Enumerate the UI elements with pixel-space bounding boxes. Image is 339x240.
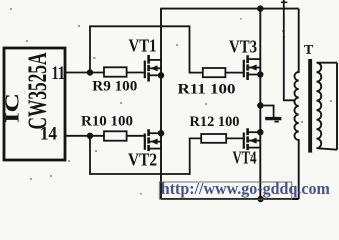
node VT3 bus to top rail (257, 5, 263, 11)
svg-text:CW3525A: CW3525A (23, 52, 52, 129)
wire R11 to VT3 gate (225, 72, 243, 74)
svg-text:R11 100: R11 100 (178, 82, 236, 98)
transformer secondary winding (317, 63, 338, 150)
svg-text:IC: IC (2, 93, 24, 123)
node ground branch junction (257, 102, 263, 108)
svg-text:R10 100: R10 100 (81, 114, 133, 130)
svg-text:T: T (304, 43, 314, 58)
node VT3 source junction (257, 71, 263, 77)
wire pin 14 to R12 bottom loop (90, 136, 201, 174)
resistor R10 (104, 131, 127, 140)
wire pin 11 to R11 top loop (90, 26, 203, 72)
wire R9 to VT1 gate (127, 72, 145, 74)
transistor VT4 (244, 128, 260, 150)
svg-text:R9 100: R9 100 (92, 78, 137, 94)
node VT2 drain junction (158, 130, 164, 136)
watermark box (159, 182, 291, 199)
resistor R9 (104, 67, 127, 76)
transformer center tap (281, 0, 295, 100)
svg-text:VT1: VT1 (129, 36, 157, 56)
wire R12 to VT4 gate (226, 137, 244, 139)
svg-text:11: 11 (52, 63, 66, 84)
svg-text:http://www.go-gddq.com: http://www.go-gddq.com (161, 179, 330, 198)
wire VT1 VT2 vertical bus (160, 9, 162, 199)
svg-text:VT4: VT4 (233, 148, 257, 168)
wire R10 to VT2 gate (127, 135, 145, 137)
svg-text:VT2: VT2 (128, 149, 157, 169)
IC CW3525A (2, 48, 66, 160)
node pin 14 junction (87, 133, 93, 139)
svg-text:R12 100: R12 100 (190, 114, 240, 130)
wire ground branch (260, 106, 273, 118)
wire pin 14 to R10 (65, 135, 104, 137)
resistor R11 (203, 68, 226, 77)
transistor VT3 (244, 55, 260, 80)
wire secondary right side (336, 63, 338, 150)
node VT1 source junction (158, 72, 164, 78)
wire top rail (160, 8, 299, 10)
resistor R12 (201, 134, 226, 143)
wire bottom rail (161, 198, 299, 200)
transformer core (308, 59, 312, 153)
ground (265, 119, 281, 122)
transistor VT1 (145, 55, 161, 82)
node VT4 drain junction (257, 129, 263, 135)
wire pin 11 to R9 (65, 72, 104, 74)
transistor VT2 (145, 129, 161, 151)
wire VT3 VT4 vertical bus (259, 9, 261, 199)
svg-text:VT3: VT3 (229, 36, 257, 56)
node VT4 bus to bottom rail (257, 196, 263, 202)
svg-text:14: 14 (40, 124, 57, 145)
transformer T primary winding (294, 9, 298, 199)
node pin 11 junction (87, 69, 93, 75)
